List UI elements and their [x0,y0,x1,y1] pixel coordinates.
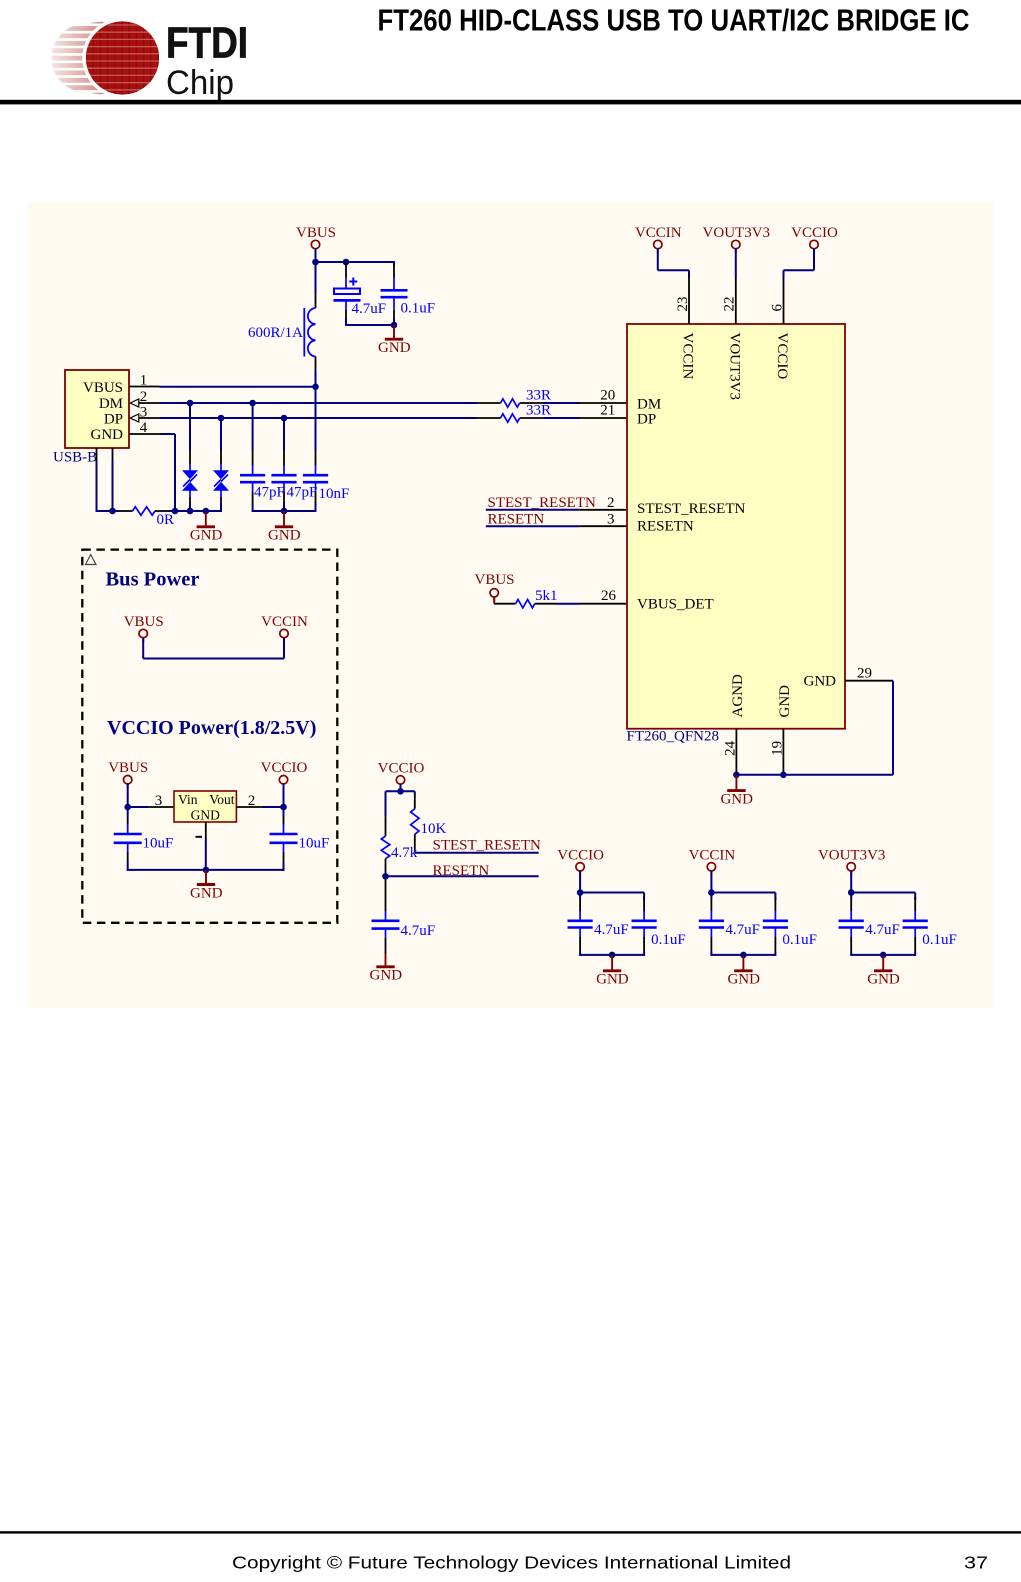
pin 21 DP [580,402,627,418]
ground (VCCIN decoupling) [727,955,760,988]
svg-text:VBUS: VBUS [83,380,123,396]
svg-text:VBUS: VBUS [108,760,148,776]
svg-text:21: 21 [600,402,615,418]
svg-text:GND: GND [720,791,753,807]
svg-text:USB-B: USB-B [53,450,97,466]
pin 29 GND (right) [845,666,893,682]
pin 3 DP (arrow) [130,404,159,422]
svg-text:4.7uF: 4.7uF [725,922,760,938]
svg-text:20: 20 [600,387,615,403]
svg-text:GND: GND [867,972,900,988]
node VBUS/inductor junction [312,384,319,391]
svg-text:4.7uF: 4.7uF [594,922,629,938]
node RESETN junction [382,873,389,880]
svg-text:0.1uF: 0.1uF [401,301,436,317]
diode D2 TVS (DP) [213,418,229,512]
svg-text:10nF: 10nF [319,486,350,502]
resistor R4 10K [411,791,447,853]
pin 2 DM (arrow) [130,389,159,407]
svg-text:VCCIO Power(1.8/2.5V): VCCIO Power(1.8/2.5V) [107,717,316,739]
svg-text:RESETN: RESETN [488,511,545,527]
power port VCCIO (regulator) [261,760,308,788]
svg-text:STEST_RESETN: STEST_RESETN [637,501,746,517]
svg-text:RESETN: RESETN [637,519,694,535]
wire top rail [316,261,395,263]
wire VBUS-VCCIN strap [143,638,284,659]
svg-text:47pF: 47pF [254,485,285,501]
svg-text:VCCIN: VCCIN [261,614,308,630]
net label STEST_RESETN [486,495,596,511]
pin 1 VBUS [129,373,160,389]
svg-text:VOUT3V3: VOUT3V3 [727,333,743,401]
FTDI logo [38,18,248,102]
heading VCCIO Power [107,717,316,739]
node Vin junction [124,804,131,811]
svg-text:VBUS_DET: VBUS_DET [637,597,714,613]
svg-text:FTDI: FTDI [166,19,248,68]
power port VBUS (regulator) [108,760,148,788]
footer text [232,1553,988,1573]
node VBUS rail junctions [312,259,349,266]
svg-text:GND: GND [596,972,629,988]
svg-text:STEST_RESETN: STEST_RESETN [488,495,597,511]
node VOUT3V3 top junction [848,889,855,896]
op-amp U1 FT260_QFN28 body [627,324,846,745]
pin 2 STEST_RESETN [580,495,627,511]
power port VOUT3V3 (IC top) [703,225,771,253]
svg-text:VBUS: VBUS [124,614,164,630]
svg-text:DP: DP [104,411,123,427]
net label STEST_RESETN (pull-up) [415,838,541,854]
wire VCCIN decoupling rails [711,871,775,955]
pin 22 VOUT3V3 [722,277,738,324]
svg-text:2: 2 [140,389,148,405]
wire regulator ground rail [127,869,285,871]
svg-text:22: 22 [722,297,738,312]
capacitor 4.7uF (VCCIN) [699,893,760,956]
capacitor C7 10uF [270,807,330,871]
wire VCCIO to divider [386,784,415,791]
wire VOUT3V3 decoupling rails [851,871,915,955]
pin 2 Vout [236,793,283,809]
svg-text:VCCIO: VCCIO [378,760,425,776]
capacitor C2 0.1uF [381,262,436,325]
ground (USB rail) [190,511,223,544]
resistor R5 4.7k [381,791,417,876]
svg-text:Vout: Vout [209,792,235,807]
node C1/C2 ground junction [391,322,398,329]
node rail junctions [172,508,209,515]
resistor R 0R [119,507,175,528]
svg-text:GND: GND [191,807,220,822]
resistor R2 33R (DP) [477,402,581,422]
svg-text:47pF: 47pF [287,485,318,501]
diode D1 TVS (DM) [182,403,198,511]
svg-text:DM: DM [637,396,661,412]
node DM junctions [187,400,256,407]
svg-text:2: 2 [607,495,615,511]
power port VBUS (top) [296,225,336,253]
net label RESETN (pull-down) [386,863,539,879]
power port VCCIO (decoupling) [557,847,604,875]
node Vout junction [280,804,287,811]
ground (reset cap) [370,954,403,984]
svg-text:10K: 10K [421,821,447,837]
wire VCCIO to Vout node [283,784,285,807]
svg-text:3: 3 [140,404,148,420]
svg-text:10uF: 10uF [299,836,330,852]
wire cap ground rail [252,510,316,512]
ground (regulator) [190,870,223,901]
node shield junction [109,508,116,515]
svg-text:3: 3 [607,511,615,527]
power port VBUS (bus power) [124,614,164,642]
svg-text:4.7uF: 4.7uF [401,923,436,939]
resistor R3 5k1 [494,588,580,608]
svg-text:VCCIO: VCCIO [774,333,790,380]
pin 20 DM [580,387,627,403]
svg-text:0.1uF: 0.1uF [922,932,957,948]
svg-text:Vin: Vin [178,792,198,807]
capacitor C6 10uF [114,807,174,871]
node cap rail junction [281,508,288,515]
svg-text:GND: GND [370,968,403,984]
pin 3 RESETN [580,511,627,527]
svg-text:FT260_QFN28: FT260_QFN28 [627,729,720,745]
svg-text:VCCIN: VCCIN [635,225,682,241]
svg-text:VCCIN: VCCIN [680,333,696,380]
power port VCCIN (decoupling) [689,847,736,875]
svg-text:0R: 0R [157,512,175,528]
svg-text:37: 37 [964,1553,988,1573]
wire DM net [160,402,477,404]
power port VCCIN (IC top) [635,225,682,253]
svg-text:23: 23 [675,297,691,312]
svg-text:4: 4 [140,420,148,436]
svg-text:5k1: 5k1 [535,588,558,604]
wire C1 bottom rail [346,324,394,326]
node VCCIN ground junction [740,952,747,959]
pin 4 GND [129,420,175,511]
svg-text:GND: GND [804,674,837,690]
svg-text:VOUT3V3: VOUT3V3 [818,847,886,863]
svg-text:1: 1 [140,373,148,389]
svg-text:19: 19 [769,741,785,756]
svg-text:DM: DM [99,396,123,412]
svg-text:24: 24 [722,740,738,756]
wire ground rail (USB side) [169,510,222,512]
ground (VCCIO decoupling) [596,955,629,988]
svg-text:GND: GND [190,528,223,544]
svg-text:0.1uF: 0.1uF [651,932,686,948]
power port VCCIN (bus power) [261,614,308,642]
svg-text:GND: GND [378,340,411,356]
wire USB shield grounds [96,448,119,512]
capacitor C8 4.7uF [372,876,436,953]
svg-text:29: 29 [857,666,872,682]
pin 19 GND [769,729,785,775]
capacitor 0.1uF (VCCIO) [632,897,686,956]
regulator U2 [174,791,236,822]
capacitor 0.1uF (VCCIN) [763,897,817,956]
svg-text:4.7uF: 4.7uF [865,922,900,938]
svg-text:GND: GND [727,972,760,988]
capacitor C3 47pF [240,403,285,512]
svg-text:GND: GND [777,685,793,718]
capacitor C5 10nF [303,387,349,512]
node divider junction [397,788,404,795]
svg-text:2: 2 [248,793,256,809]
capacitor C4 47pF [271,418,317,511]
svg-text:VOUT3V3: VOUT3V3 [703,225,771,241]
svg-text:VCCIO: VCCIO [791,225,838,241]
svg-text:AGND: AGND [730,674,746,717]
node VCCIN top junction [708,889,715,896]
power port VOUT3V3 (decoupling) [818,847,886,875]
pin 1 GND (regulator) [196,822,206,870]
node IC ground junctions [733,772,787,779]
node DP junctions [218,415,288,422]
svg-text:FT260 HID-CLASS USB TO UART/I2: FT260 HID-CLASS USB TO UART/I2C BRIDGE I… [378,3,970,37]
inductor FB 600R/1A [248,262,316,387]
capacitor C1 4.7uF (polarized) [334,262,387,326]
svg-text:STEST_RESETN: STEST_RESETN [433,838,542,854]
svg-text:VBUS: VBUS [474,572,514,588]
svg-text:4.7k: 4.7k [391,845,418,861]
svg-text:600R/1A: 600R/1A [248,325,303,341]
svg-text:33R: 33R [526,387,551,403]
node VOUT3V3 ground junction [880,952,887,959]
svg-text:26: 26 [601,588,617,604]
svg-text:VCCIO: VCCIO [557,847,604,863]
ground (top filter) [378,325,411,356]
wire DP net [160,417,477,419]
net label RESETN [486,511,580,527]
node VCCIO ground junction [609,952,616,959]
wire VCCIO to pin 6 [784,249,815,278]
pin 26 VBUS_DET [580,588,627,604]
ground (IC) [720,775,753,808]
svg-text:0.1uF: 0.1uF [782,932,817,948]
wire pin29 to ground rail [736,681,893,775]
dashed option box [82,550,337,923]
footer rule [0,1531,1021,1533]
connector USB-B [53,370,129,466]
ground (cap rail) [268,511,301,544]
svg-text:VCCIO: VCCIO [261,760,308,776]
svg-text:GND: GND [268,528,301,544]
svg-text:Chip: Chip [166,64,234,102]
svg-text:VBUS: VBUS [296,225,336,241]
pin 6 VCCIO [769,277,785,324]
svg-text:33R: 33R [526,402,551,418]
pin 23 VCCIN [675,277,691,324]
svg-text:Bus Power: Bus Power [106,569,200,591]
wire VBUS to Vin node [127,784,129,807]
header rule [0,100,1021,105]
capacitor 4.7uF (VCCIO) [568,893,629,956]
ground (VOUT3V3 decoupling) [867,955,900,988]
svg-text:6: 6 [769,304,785,312]
node VCCIO top junction [577,889,584,896]
wire VOUT3V3 to pin 22 [735,249,737,278]
wire VCCIO decoupling rails [580,871,644,955]
wire VBUS net to inductor [160,386,316,388]
svg-text:10uF: 10uF [143,836,174,852]
svg-text:GND: GND [91,427,124,443]
svg-text:Copyright © Future Technology: Copyright © Future Technology Devices In… [232,1553,791,1573]
wire VBUS to rail [315,249,317,262]
heading Bus Power [106,569,200,591]
svg-text:4.7uF: 4.7uF [352,301,387,317]
power port VBUS (detect) [474,572,514,601]
capacitor 0.1uF (VOUT3V3) [903,897,957,956]
svg-text:VCCIN: VCCIN [689,847,736,863]
pin 3 Vin [128,793,174,809]
power port VCCIO (reset) [378,760,425,788]
resistor R1 33R (DM) [477,387,581,407]
svg-text:3: 3 [155,793,163,809]
node regulator ground junction [203,867,210,874]
svg-text:DP: DP [637,411,656,427]
wire VCCIN to pin 23 [658,249,689,278]
power port VCCIO (IC top) [791,225,838,253]
capacitor 4.7uF (VOUT3V3) [839,893,900,956]
schematic sheet background [28,202,993,1008]
pin 24 AGND [722,729,738,775]
svg-text:GND: GND [190,885,223,901]
